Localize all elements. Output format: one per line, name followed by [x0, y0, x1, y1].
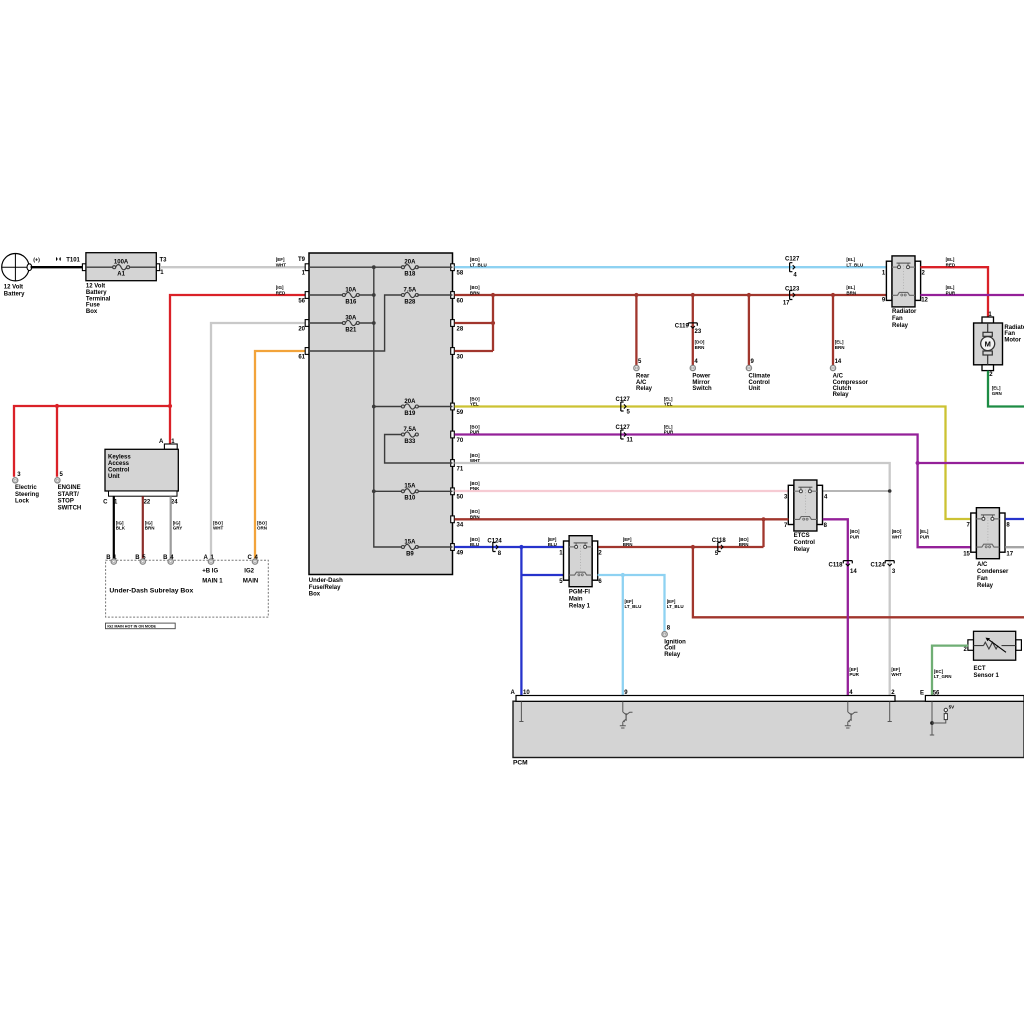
svg-text:BRN: BRN [470, 515, 480, 520]
svg-text:[BO]: [BO] [470, 396, 480, 401]
label [EF] BLU [548, 537, 557, 547]
relay Radiator Fan Relay [882, 256, 929, 329]
svg-text:[EF]: [EF] [548, 537, 557, 542]
pin 50 [451, 488, 464, 501]
svg-text:B: B [163, 555, 168, 561]
svg-text:[EF]: [EF] [623, 537, 632, 542]
wire BLU to PCM pin10 [520, 547, 522, 695]
svg-text:WHT: WHT [891, 672, 901, 677]
svg-text:Rear: Rear [636, 374, 650, 380]
pin 28 [451, 320, 464, 333]
svg-text:A/C: A/C [833, 374, 844, 380]
wire ETCS pin4 to white rail [823, 490, 890, 492]
connector C127 pin 11 [616, 425, 634, 444]
svg-text:PUR: PUR [470, 430, 480, 435]
wire keyless pin1 BLK [113, 496, 115, 559]
svg-text:T3: T3 [160, 258, 168, 264]
node LT_BLU junction [621, 573, 625, 577]
node red junction x57 [55, 404, 59, 408]
svg-text:71: 71 [457, 466, 464, 472]
wire pin71 WHT to PCM pin2 [455, 463, 890, 695]
terminal 14 A/C Compressor Clutch Relay [830, 359, 868, 398]
svg-text:15A: 15A [404, 484, 416, 490]
terminal 9 Climate Control Unit [746, 359, 771, 392]
svg-text:BLU: BLU [470, 542, 479, 547]
svg-text:Fan: Fan [892, 316, 903, 322]
wire motor pin2 GRN [988, 371, 1024, 407]
wire LT_BLU to PCM pin9 [622, 575, 624, 695]
svg-text:Fan: Fan [977, 576, 988, 582]
svg-text:GRY: GRY [173, 526, 183, 531]
svg-text:[BO]: [BO] [850, 529, 860, 534]
svg-text:LT_GRN: LT_GRN [934, 674, 952, 679]
node BRN junction row J [691, 545, 695, 549]
label PCM pin 4 [849, 690, 853, 696]
svg-text:15: 15 [963, 551, 970, 557]
node link x493 row B [491, 293, 495, 297]
svg-text:Battery: Battery [4, 292, 25, 298]
pin 70 [451, 431, 464, 444]
Under-Dash Fuse/Relay Box [309, 253, 453, 598]
svg-text:C124: C124 [871, 563, 886, 569]
svg-text:B16: B16 [345, 299, 357, 305]
svg-text:Relay: Relay [794, 547, 811, 553]
node link x493 row C [491, 321, 495, 325]
fuse B21 30A [342, 315, 359, 333]
svg-text:[BO]: [BO] [470, 481, 480, 486]
node bus row H [372, 489, 376, 493]
label [BO] PUR vertical [850, 529, 860, 539]
wire ETCS pin8 PUR to PCM pin4 [823, 519, 848, 695]
svg-text:12: 12 [921, 298, 928, 304]
svg-text:17: 17 [1006, 551, 1013, 557]
svg-text:20: 20 [298, 326, 305, 332]
svg-text:C127: C127 [785, 257, 800, 263]
svg-text:[EL]: [EL] [835, 340, 844, 345]
svg-text:YEL: YEL [664, 402, 673, 407]
svg-text:Radiator: Radiator [1004, 325, 1024, 331]
inline connector T101 [57, 257, 81, 263]
node bus row C [372, 321, 376, 325]
svg-text:PUR: PUR [664, 430, 674, 435]
svg-text:Radiator: Radiator [892, 309, 917, 315]
label PCM pin 2 [891, 690, 895, 696]
connector C127 pin 5 [616, 397, 631, 416]
svg-text:Motor: Motor [1004, 337, 1021, 343]
svg-text:11: 11 [627, 437, 634, 443]
svg-text:[BO]: [BO] [470, 453, 480, 458]
svg-text:[EL]: [EL] [846, 257, 855, 262]
svg-text:14: 14 [850, 569, 857, 575]
svg-text:B18: B18 [404, 272, 416, 278]
wire link pins 28 30 [455, 295, 494, 351]
svg-text:PCM: PCM [513, 760, 528, 767]
svg-text:WHT: WHT [892, 535, 902, 540]
svg-text:[IG]: [IG] [145, 520, 153, 525]
label [BO] YEL [470, 396, 480, 406]
label [BO] BRN row B [470, 285, 480, 295]
label [BO] WHT vertical [892, 529, 902, 539]
label [BO] BRN row J [739, 537, 749, 547]
node white rail junction [888, 489, 892, 493]
svg-text:WHT: WHT [213, 526, 223, 531]
wire B28 to pin 60 [417, 294, 452, 296]
fuse B18 20A [401, 260, 418, 278]
svg-text:C119: C119 [675, 324, 690, 330]
connector C123 pin 17 [783, 286, 800, 306]
svg-text:7.5A: 7.5A [404, 287, 417, 293]
svg-text:12 Volt: 12 Volt [86, 284, 105, 290]
label [EF] BRN [623, 537, 633, 547]
PCM pin4 transistor [845, 702, 858, 729]
node branch rear AC relay [634, 293, 638, 297]
label [EF] PUR near PCM [849, 667, 859, 677]
label [IG] GRY [173, 520, 183, 530]
PCM pin9 transistor [620, 702, 633, 729]
svg-text:12 Volt: 12 Volt [4, 285, 23, 291]
svg-text:Fuse: Fuse [86, 303, 101, 309]
wire branch to engine start stop switch [56, 406, 58, 477]
svg-text:Relay: Relay [892, 323, 909, 329]
svg-text:Electric: Electric [15, 485, 37, 491]
label [BO] BRN row I [470, 509, 480, 519]
wire B19 leads [374, 406, 453, 408]
label [EC] LT_GRN [934, 669, 952, 679]
pin 59 [451, 403, 464, 416]
wire branch rear AC relay [635, 295, 637, 365]
svg-text:WHT: WHT [276, 263, 286, 268]
svg-text:60: 60 [457, 298, 464, 304]
label [EL] RED [946, 257, 956, 267]
svg-text:56: 56 [298, 298, 305, 304]
svg-text:[IG]: [IG] [116, 520, 124, 525]
svg-text:20A: 20A [404, 260, 416, 266]
label [BO] LT_BLU [470, 257, 487, 267]
svg-text:Switch: Switch [692, 386, 712, 392]
svg-text:B10: B10 [404, 496, 416, 502]
svg-text:Main: Main [569, 596, 583, 602]
label [BO] PUR row F [470, 424, 480, 434]
wire pin61 ORN to IG2 MAIN [255, 351, 305, 559]
svg-text:Clutch: Clutch [833, 386, 852, 392]
note IG2 MAIN HOT IN ON MODE [106, 623, 176, 629]
svg-text:[BO]: [BO] [470, 537, 480, 542]
wire pin34 BRN to ETCS pin7 [455, 518, 789, 520]
12 Volt Battery Terminal Fuse Box [82, 253, 159, 315]
svg-text:PUR: PUR [849, 672, 859, 677]
svg-text:B33: B33 [404, 439, 416, 445]
PCM pin56 5V pull-up [930, 702, 955, 736]
label [BO] PNK [470, 481, 480, 491]
wire purple branch to edge [918, 462, 1024, 464]
pin 71 [451, 460, 464, 473]
label [BO] BLU [470, 537, 480, 547]
connector C124 pin 8 [487, 538, 502, 557]
wire B21 leads [309, 322, 374, 324]
wire red rail to electric steering lock [14, 406, 170, 477]
pin 20 [298, 320, 308, 333]
svg-text:28: 28 [457, 326, 464, 332]
svg-text:Fan: Fan [1004, 331, 1015, 337]
svg-text:Power: Power [692, 374, 711, 380]
svg-text:ECT: ECT [974, 666, 986, 672]
svg-text:PUR: PUR [920, 535, 930, 540]
node branch climate control [747, 293, 751, 297]
svg-text:B: B [106, 555, 111, 561]
node branch AC compressor clutch relay [831, 293, 835, 297]
svg-text:Under-Dash: Under-Dash [309, 578, 343, 584]
terminal A1 +B IG MAIN 1 [202, 555, 223, 585]
svg-text:[EF]: [EF] [849, 667, 858, 672]
connector C118 pin 14 [828, 561, 857, 575]
label [BO] ORN [257, 520, 267, 530]
svg-text:[EF]: [EF] [276, 257, 285, 262]
wire T3 to under-dash box WHT [160, 266, 306, 268]
svg-text:Access: Access [108, 461, 130, 467]
svg-text:Unit: Unit [108, 474, 120, 480]
svg-text:[EF]: [EF] [667, 599, 676, 604]
svg-text:Ignition: Ignition [664, 639, 686, 645]
fuse B10 15A [401, 484, 418, 502]
svg-text:24: 24 [171, 499, 178, 505]
label T3 pin 1 [160, 258, 168, 276]
pin 34 [451, 516, 464, 529]
relay A/C Condenser Fan Relay [963, 508, 1014, 589]
connector C119 pin 23 [675, 323, 702, 335]
svg-text:START/: START/ [58, 492, 80, 498]
wire red to keyless A1 [169, 406, 171, 444]
terminal 5 Rear A/C Relay [634, 359, 653, 392]
svg-text:B21: B21 [345, 327, 357, 333]
svg-text:IG2 MAIN HOT IN ON MODE: IG2 MAIN HOT IN ON MODE [107, 625, 156, 629]
connector C124 pin 3 [871, 561, 896, 575]
connector C127 pin 4 [785, 257, 800, 279]
pin 30 [451, 348, 464, 361]
label [BO] WHT row G [470, 453, 480, 463]
svg-text:[EL]: [EL] [664, 424, 673, 429]
svg-text:61: 61 [298, 354, 305, 360]
wire B9 to pin 49 [417, 546, 452, 548]
svg-text:[EL]: [EL] [946, 285, 955, 290]
svg-text:49: 49 [457, 550, 464, 556]
fuse B28 7.5A [401, 287, 418, 305]
svg-text:A: A [203, 555, 208, 561]
svg-text:Relay 1: Relay 1 [569, 603, 591, 609]
label [EL] BRN compressor [835, 340, 845, 350]
svg-text:[BO]: [BO] [257, 520, 267, 525]
svg-text:[BO]: [BO] [470, 509, 480, 514]
relay ETCS Control Relay [784, 480, 828, 553]
label [EL] PUR vertical [920, 529, 930, 539]
svg-text:Keyless: Keyless [108, 454, 131, 460]
label PCM pin A 10 [510, 690, 530, 696]
svg-text:100A: 100A [114, 260, 129, 266]
label [EL] YEL [664, 396, 673, 406]
label PCM pin E 56 [920, 691, 940, 697]
wire pin50 PNK to ETCS pin3 [455, 490, 789, 492]
svg-text:10A: 10A [345, 287, 357, 293]
label [DO] BRN [695, 340, 705, 350]
svg-text:Under-Dash Subrelay Box: Under-Dash Subrelay Box [109, 587, 193, 594]
svg-text:ENGINE: ENGINE [58, 485, 81, 491]
pin 56 [298, 292, 308, 305]
svg-text:BRN: BRN [835, 345, 845, 350]
svg-text:[BO]: [BO] [470, 257, 480, 262]
terminal C4 IG2 MAIN [243, 555, 259, 585]
fuse B33 7.5A [401, 427, 418, 445]
svg-text:[EF]: [EF] [625, 599, 634, 604]
wire pin59 YEL to AC condenser relay pin7 [455, 407, 971, 520]
svg-text:[EL]: [EL] [992, 386, 1001, 391]
svg-text:PUR: PUR [850, 535, 860, 540]
terminal 5 ENGINE START/STOP SWITCH [55, 472, 82, 512]
wire keyless pin24 GRY [170, 496, 172, 559]
node bus row A [372, 265, 376, 269]
svg-text:[EC]: [EC] [934, 669, 944, 674]
label [EF] LT_BLU right [667, 599, 684, 609]
svg-text:BRN: BRN [739, 542, 749, 547]
svg-text:RED: RED [946, 263, 956, 268]
Under-Dash Subrelay Box [106, 560, 269, 617]
label [IG] BRN [145, 520, 155, 530]
svg-text:C: C [247, 555, 252, 561]
svg-text:[BO]: [BO] [739, 537, 749, 542]
wire keyless pin22 BRN [142, 496, 144, 559]
svg-text:Control: Control [749, 380, 771, 386]
svg-text:YEL: YEL [470, 402, 479, 407]
svg-text:MAIN 1: MAIN 1 [202, 578, 223, 584]
fuse B9 15A [401, 539, 418, 557]
svg-text:10: 10 [523, 690, 530, 696]
svg-text:Relay: Relay [833, 392, 850, 398]
svg-text:BRN: BRN [623, 542, 633, 547]
svg-text:23: 23 [695, 329, 702, 335]
wire BLU branch to PGMFI pin5 [521, 574, 563, 576]
relay PGM-FI Main Relay 1 [559, 536, 602, 610]
label [EL] PUR row B [946, 285, 956, 295]
pin T9 1 [298, 257, 309, 277]
wire pin20 WHT to +B IG MAIN 1 [211, 323, 305, 559]
svg-text:[EL]: [EL] [946, 257, 955, 262]
svg-text:BRN: BRN [145, 526, 155, 531]
wire ECT pin2 LT_GRN to PCM pin56 [932, 646, 968, 696]
svg-text:BLU: BLU [548, 542, 557, 547]
wire pin56 red feed [170, 295, 305, 406]
svg-text:Relay: Relay [636, 386, 653, 392]
svg-text:B: B [135, 555, 140, 561]
svg-text:C118: C118 [828, 563, 843, 569]
wire AC condenser pin8 BLU [1005, 518, 1024, 520]
fuse A1 100A [113, 260, 130, 278]
label (+) [33, 258, 40, 264]
node purple branch [916, 461, 920, 465]
label [EF] WHT near PCM [891, 667, 901, 677]
label PCM pin 9 [624, 690, 628, 696]
pin 61 [298, 348, 308, 361]
svg-text:[BO]: [BO] [892, 529, 902, 534]
wire pin58 LT_BLU [455, 266, 887, 268]
fuse B16 10A [342, 287, 359, 305]
svg-text:56: 56 [933, 691, 940, 697]
label [IG] BLK [116, 520, 126, 530]
svg-text:5V: 5V [949, 705, 956, 710]
svg-text:BRN: BRN [695, 345, 705, 350]
node BLU junction [519, 545, 523, 549]
svg-text:ORN: ORN [257, 526, 267, 531]
Keyless Access Control Unit [103, 439, 178, 505]
node branch power mirror switch [691, 293, 695, 297]
svg-text:Fuse/Relay: Fuse/Relay [309, 585, 341, 591]
svg-text:Terminal: Terminal [86, 296, 111, 302]
svg-text:50: 50 [457, 495, 464, 501]
connector C118 pin 5 [712, 538, 727, 557]
svg-text:22: 22 [144, 499, 151, 505]
node BRN junction row I [761, 517, 765, 521]
svg-text:[BO]: [BO] [470, 424, 480, 429]
svg-text:RED: RED [276, 290, 286, 295]
svg-text:WHT: WHT [470, 458, 480, 463]
wire branch AC compressor clutch relay [832, 295, 834, 365]
svg-text:LT_BLU: LT_BLU [667, 604, 684, 609]
svg-text:MAIN: MAIN [243, 578, 258, 584]
svg-text:59: 59 [457, 410, 464, 416]
svg-text:Unit: Unit [749, 386, 761, 392]
pin 49 [451, 544, 464, 557]
wire PGMFI pin6 LT_BLU [598, 575, 665, 632]
terminal 3 Electric Steering Lock [13, 472, 40, 505]
wire BRN link rows I J [762, 519, 764, 547]
svg-text:(+): (+) [33, 258, 40, 264]
svg-text:GRN: GRN [992, 391, 1002, 396]
svg-text:BRN: BRN [470, 290, 480, 295]
battery 12V [2, 254, 32, 298]
svg-text:B9: B9 [406, 551, 414, 557]
wire B10 leads [374, 490, 453, 492]
svg-text:[IG]: [IG] [276, 285, 284, 290]
svg-text:LT_BLU: LT_BLU [846, 263, 863, 268]
wire branch power mirror switch [692, 295, 694, 365]
svg-text:Mirror: Mirror [692, 380, 710, 386]
wire pin49 BLU [455, 546, 564, 548]
svg-text:C123: C123 [785, 286, 800, 292]
svg-text:Lock: Lock [15, 499, 30, 505]
svg-text:34: 34 [457, 523, 464, 529]
wire relay pin12 PUR [920, 294, 1024, 296]
node bus row B [372, 293, 376, 297]
svg-text:A: A [159, 439, 164, 445]
label [EL] PUR row F [664, 424, 674, 434]
svg-text:Steering: Steering [15, 492, 39, 498]
label [EF] LT_BLU left [625, 599, 642, 609]
node red junction x170 [168, 404, 172, 408]
wire pin70 PUR to AC condenser relay pin15 [455, 435, 971, 548]
terminal B1 [106, 555, 117, 564]
svg-text:Condenser: Condenser [977, 569, 1009, 575]
svg-text:17: 17 [783, 301, 790, 307]
svg-text:SWITCH: SWITCH [58, 505, 82, 511]
svg-text:A/C: A/C [977, 562, 988, 568]
svg-text:+B IG: +B IG [202, 569, 218, 575]
svg-text:C124: C124 [487, 538, 502, 544]
svg-text:E: E [920, 691, 924, 697]
module PCM [513, 696, 1024, 767]
svg-text:70: 70 [457, 438, 464, 444]
wire B28 feed from pin 61 [309, 295, 402, 351]
terminal B5 [135, 555, 146, 564]
motor Radiator Fan Motor [974, 312, 1024, 378]
svg-text:7.5A: 7.5A [404, 427, 417, 433]
svg-text:20A: 20A [404, 399, 416, 405]
